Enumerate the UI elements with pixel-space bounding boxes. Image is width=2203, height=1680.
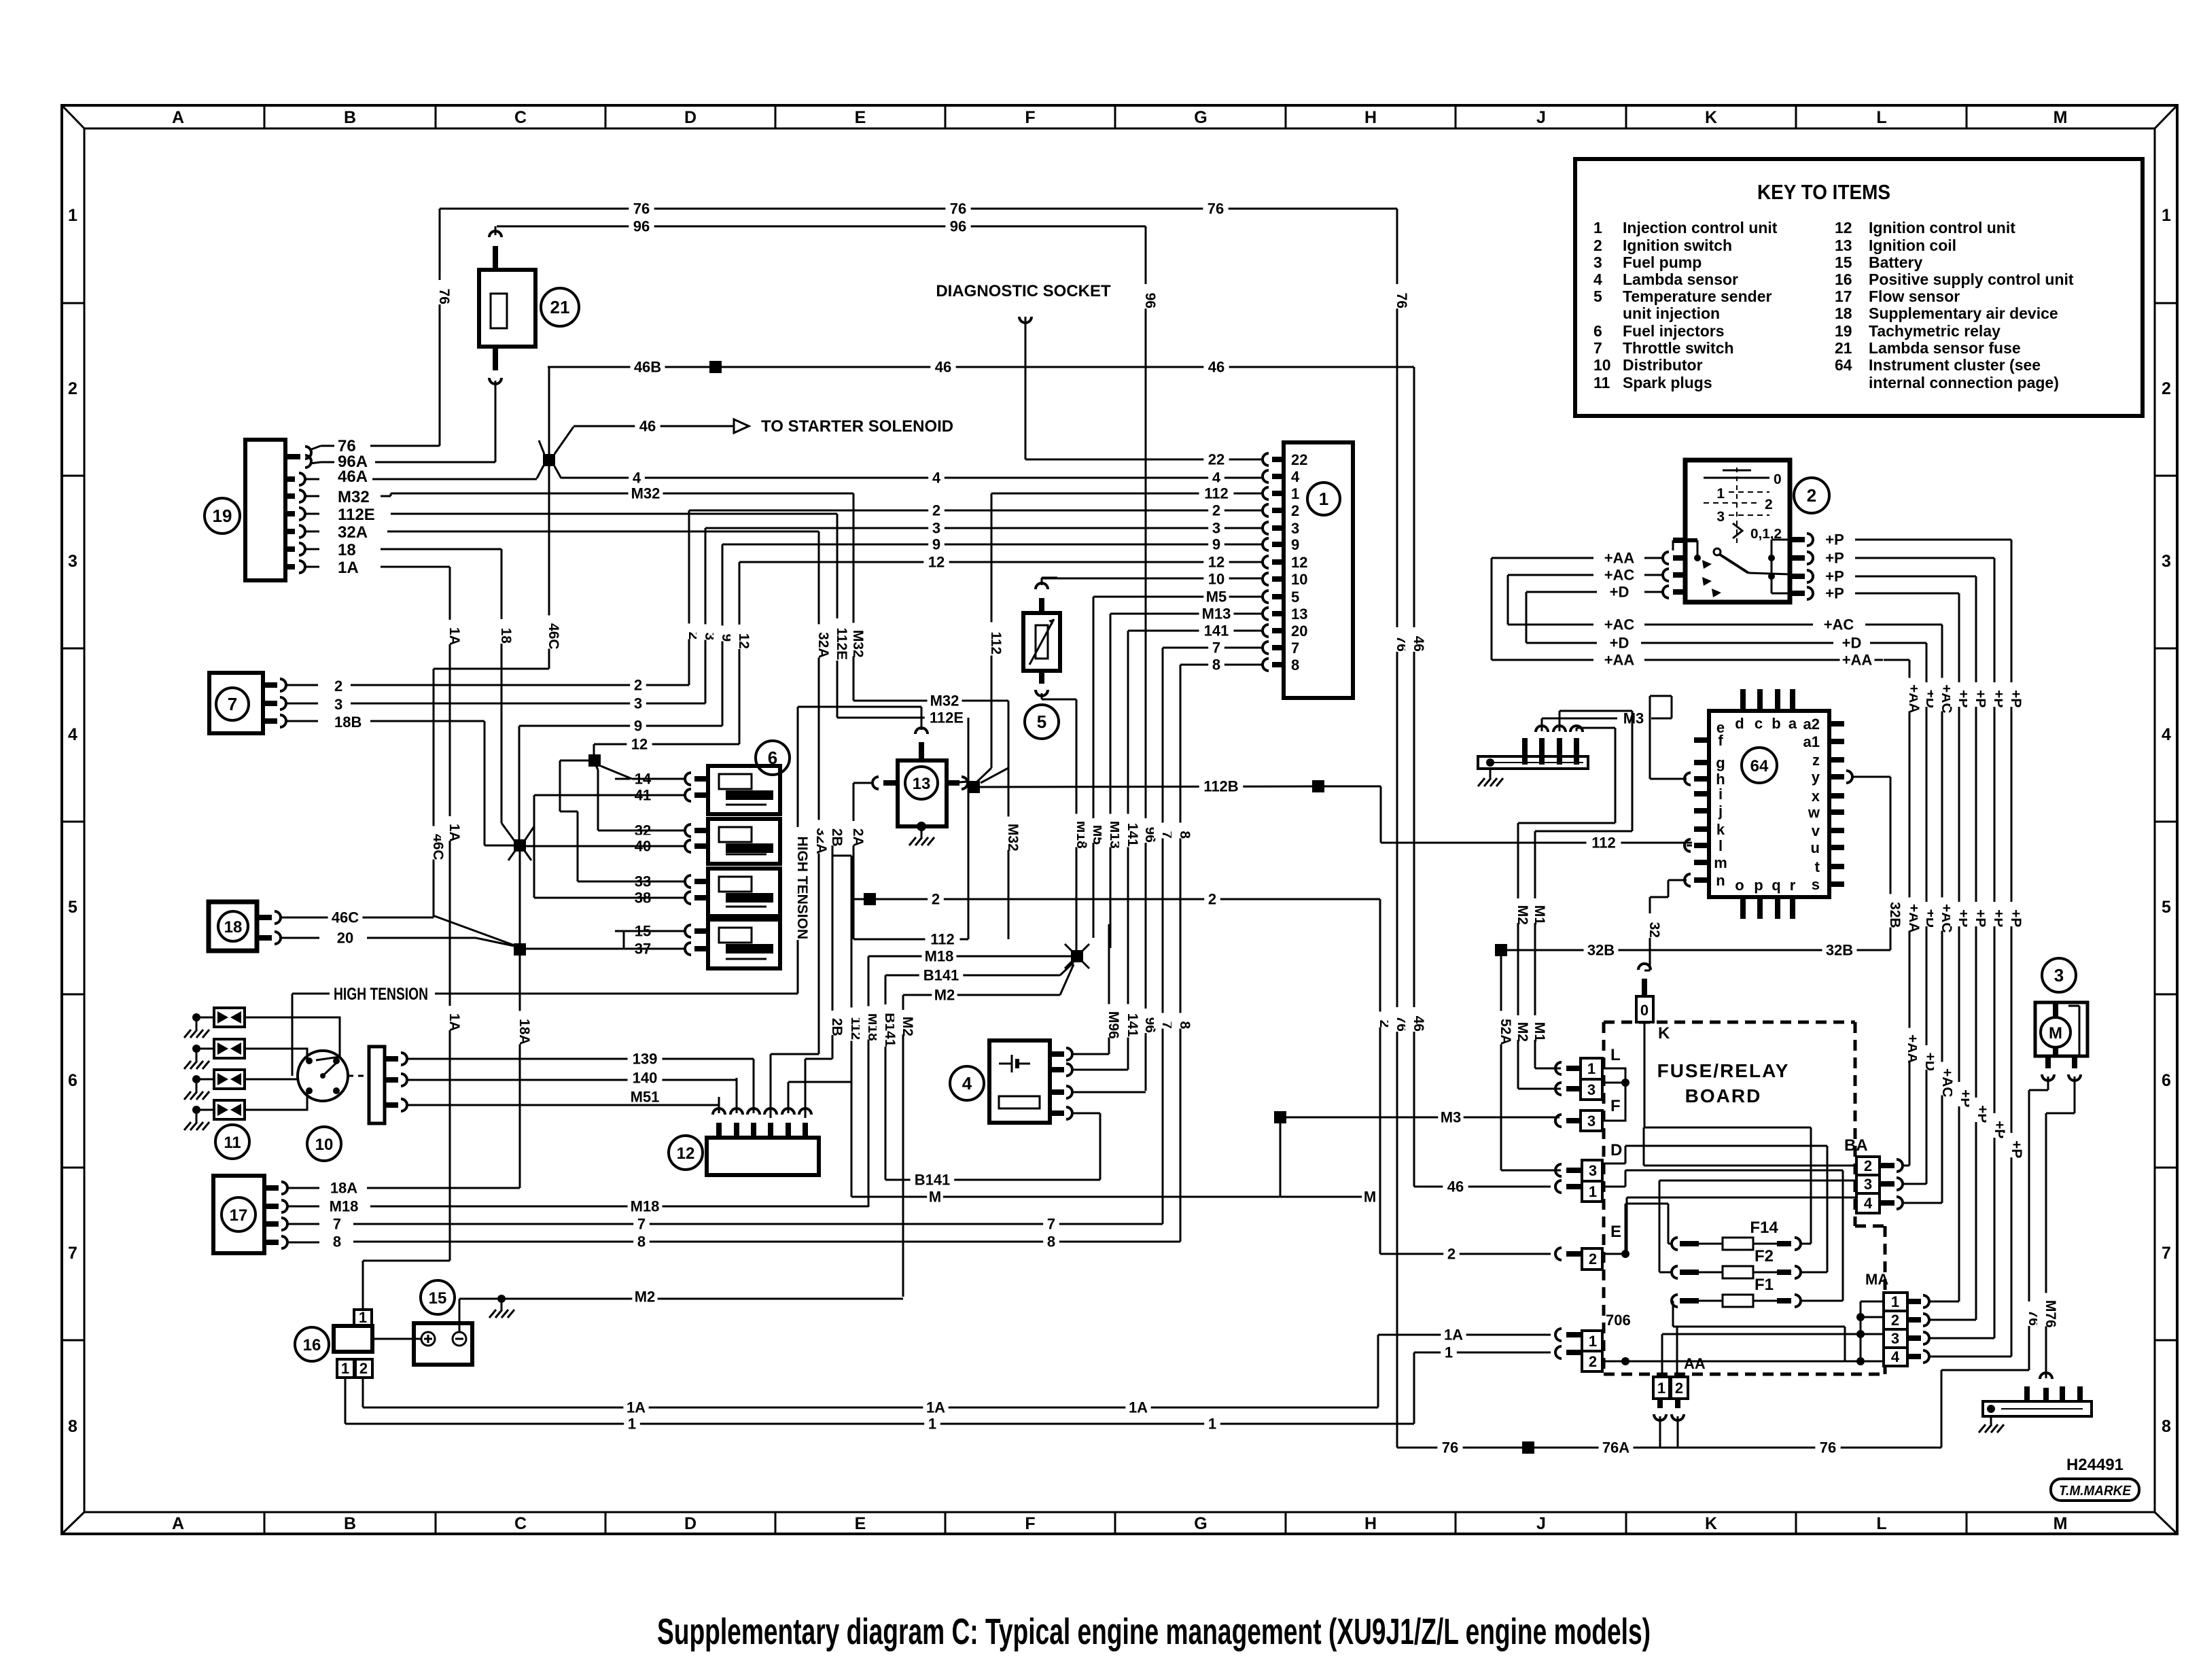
svg-text:B141: B141	[923, 966, 959, 983]
wire BA2 to +AA	[1903, 660, 1909, 1166]
svg-text:BOARD: BOARD	[1685, 1085, 1762, 1106]
wire 96A from fuse	[375, 461, 495, 463]
wire fuse21 top	[495, 226, 497, 235]
wire 1 bottom	[345, 1413, 1414, 1433]
svg-text:112: 112	[988, 631, 1004, 654]
coil left pin	[853, 777, 898, 789]
svg-text:Supplementary diagram C: Typi: Supplementary diagram C: Typical engine …	[657, 1611, 1651, 1652]
wire BA3 to +D	[1903, 643, 1926, 1184]
svg-text:9: 9	[1212, 536, 1220, 553]
high tension wire left	[292, 994, 330, 1076]
svg-text:DIAGNOSTIC SOCKET: DIAGNOSTIC SOCKET	[936, 282, 1111, 300]
svg-text:2: 2	[1589, 1250, 1597, 1267]
svg-text:J: J	[1536, 1514, 1546, 1533]
board 706 dot	[1602, 1357, 1629, 1365]
svg-text:u: u	[1811, 839, 1820, 856]
svg-text:M32: M32	[631, 485, 660, 502]
wire +D right segment	[1839, 632, 1926, 652]
svg-text:2: 2	[1208, 890, 1216, 907]
fuel injector 6.2	[685, 819, 780, 864]
wire M2 mid	[903, 964, 1074, 1003]
svg-text:20: 20	[337, 929, 353, 946]
wire 32B label segment	[1890, 949, 1892, 951]
wire M51	[428, 1086, 719, 1106]
svg-text:M96: M96	[1106, 1011, 1121, 1039]
svg-text:15: 15	[429, 1289, 447, 1308]
svg-text:11: 11	[224, 1134, 241, 1152]
svg-text:46: 46	[639, 417, 656, 434]
circle 4	[950, 1066, 984, 1100]
svg-text:2: 2	[1864, 1157, 1872, 1174]
distributor rotor	[306, 1057, 340, 1094]
switch 2 right pins	[1768, 533, 1813, 599]
circle 21	[541, 288, 579, 326]
wire 141 ecu	[1128, 630, 1264, 632]
wire 12 lower	[594, 733, 739, 755]
bus M96 vertical	[1100, 924, 1121, 1054]
coil ground	[909, 822, 934, 845]
injector 6.1 wire labels	[615, 768, 685, 804]
board K wire	[1644, 1022, 1646, 1127]
svg-text:Lambda sensor: Lambda sensor	[1623, 270, 1738, 288]
svg-text:T.M.MARKE: T.M.MARKE	[2059, 1484, 2132, 1499]
svg-text:76: 76	[950, 200, 966, 217]
svg-text:7: 7	[2162, 1244, 2171, 1263]
svg-text:a2: a2	[1803, 716, 1820, 733]
wire 1 riser	[1414, 1342, 1551, 1424]
svg-text:D: D	[684, 1514, 697, 1533]
svg-text:4: 4	[1291, 468, 1300, 485]
svg-text:4: 4	[2162, 725, 2171, 744]
svg-text:w: w	[1808, 804, 1820, 821]
svg-text:+D: +D	[1610, 583, 1629, 600]
fuse F2	[1672, 1247, 1801, 1278]
wire M3 link	[1274, 1106, 1559, 1197]
wire 112B to cluster	[1324, 786, 1692, 851]
svg-text:7: 7	[1047, 1215, 1055, 1232]
injector feed wire 41-38	[534, 795, 685, 898]
svg-text:96: 96	[1142, 293, 1158, 309]
svg-text:4: 4	[932, 469, 941, 486]
svg-text:L: L	[1876, 108, 1886, 127]
bus 32B vertical	[1882, 777, 1903, 950]
svg-text:13: 13	[1835, 237, 1852, 254]
svg-text:4: 4	[633, 469, 641, 486]
svg-text:8: 8	[637, 1233, 646, 1250]
svg-text:a: a	[1788, 715, 1797, 732]
svg-text:22: 22	[1291, 451, 1307, 468]
svg-text:K: K	[1658, 1024, 1670, 1043]
svg-text:2: 2	[1807, 485, 1816, 506]
svg-text:140: 140	[633, 1069, 658, 1086]
tachymetric relay 19 box	[245, 440, 285, 580]
battery 15 box	[414, 1323, 472, 1365]
board wire D to F1	[1602, 1170, 1843, 1301]
bus M5 vertical	[1085, 597, 1106, 938]
wire cluster l pin	[1687, 845, 1692, 847]
svg-text:+AC: +AC	[1604, 616, 1635, 633]
svg-text:8: 8	[68, 1417, 77, 1436]
svg-text:F: F	[1025, 1514, 1035, 1533]
bus +AA labels	[1899, 678, 1922, 1063]
svg-text:7: 7	[1593, 339, 1602, 357]
svg-text:3: 3	[1291, 520, 1299, 537]
svg-text:3: 3	[1891, 1330, 1899, 1347]
svg-text:m: m	[1714, 854, 1727, 871]
svg-text:4: 4	[962, 1073, 972, 1093]
svg-text:1A: 1A	[1444, 1326, 1463, 1343]
svg-text:76: 76	[1820, 1439, 1836, 1456]
svg-text:46C: 46C	[546, 623, 561, 650]
spark plug wires to distributor	[245, 1017, 340, 1110]
spark plug 11.2	[184, 1039, 245, 1069]
svg-text:2: 2	[2162, 379, 2171, 398]
svg-text:f: f	[1718, 732, 1723, 749]
svg-text:K: K	[1705, 108, 1717, 127]
bus +P labels 2	[1967, 682, 1990, 1123]
node 46 junction	[537, 367, 574, 669]
board AA risers	[1662, 1326, 1861, 1377]
wire 46 to board D	[1414, 1176, 1551, 1195]
board wire F1 lower	[1672, 1301, 1845, 1362]
svg-text:20: 20	[1291, 623, 1307, 640]
wire 112 short	[853, 928, 968, 948]
svg-text:t: t	[1815, 858, 1820, 875]
svg-text:5: 5	[1037, 712, 1046, 732]
ECU 1 pin connectors	[1263, 453, 1284, 671]
board wire 706 to MA	[1625, 1361, 1861, 1363]
temperature sender 5 box	[1023, 613, 1060, 671]
bus 3 vertical	[697, 528, 718, 703]
svg-text:+AA: +AA	[1842, 651, 1873, 668]
svg-text:M3: M3	[1623, 710, 1644, 727]
svg-text:J: J	[1536, 108, 1546, 127]
relay 19 pins	[285, 446, 334, 573]
svg-text:1: 1	[1716, 486, 1725, 502]
wire 1A riser	[1378, 1324, 1551, 1408]
board L loop	[1602, 1068, 1629, 1121]
circle 11	[215, 1125, 249, 1159]
svg-text:32A: 32A	[815, 632, 831, 659]
flow sensor 17 pins	[264, 1182, 319, 1248]
svg-text:112E: 112E	[930, 709, 964, 726]
wire +AA left	[1492, 547, 1663, 567]
fuse F14	[1672, 1219, 1801, 1250]
M3 bus bar	[1478, 726, 1588, 769]
board wire K to F14	[1644, 1127, 1811, 1244]
svg-text:M1: M1	[1532, 1022, 1547, 1042]
svg-text:r: r	[1790, 877, 1796, 894]
svg-text:F: F	[1610, 1097, 1621, 1115]
svg-text:2: 2	[359, 1360, 368, 1377]
distributor cap pins	[385, 1053, 428, 1111]
board connector F	[1555, 1097, 1621, 1131]
svg-text:1: 1	[1291, 485, 1299, 502]
wire 22	[1025, 459, 1264, 461]
lambda sensor 4 box	[989, 1040, 1050, 1123]
svg-text:10: 10	[1208, 570, 1224, 587]
svg-text:2A: 2A	[850, 828, 866, 847]
distributor cap bar	[369, 1047, 385, 1123]
wire 3 ecu	[705, 517, 1264, 537]
svg-text:2: 2	[1291, 502, 1299, 519]
lambda sensor 4 pins	[1050, 1048, 1072, 1119]
svg-text:9: 9	[634, 717, 642, 734]
svg-text:Supplementary air device: Supplementary air device	[1869, 304, 2058, 322]
ground near battery	[489, 1300, 514, 1318]
svg-text:x: x	[1812, 788, 1820, 805]
wire 16 to battery	[372, 1338, 421, 1340]
junction X 18A	[501, 823, 534, 943]
svg-text:a1: a1	[1803, 733, 1820, 750]
wire 2 to board E	[1380, 1243, 1551, 1263]
svg-text:46B: 46B	[634, 358, 661, 375]
svg-text:j: j	[1718, 803, 1723, 820]
caption	[657, 1611, 1651, 1652]
wire +P 1	[1813, 529, 2011, 548]
grid row dividers	[62, 303, 2177, 1340]
svg-text:l: l	[1719, 837, 1723, 854]
svg-text:3: 3	[634, 695, 642, 712]
circle 18	[218, 911, 248, 941]
spark plug 11.4	[184, 1100, 245, 1130]
wire 18 top	[381, 548, 501, 550]
svg-text:4: 4	[68, 725, 77, 744]
injector feed junction A	[560, 754, 685, 881]
wire 1A top	[381, 566, 450, 568]
svg-text:q: q	[1772, 877, 1780, 894]
ECU 1 wire labels	[1199, 449, 1234, 673]
svg-text:1: 1	[2162, 206, 2171, 225]
wire B141 loop from lambda	[885, 1113, 1100, 1188]
svg-text:10: 10	[1593, 356, 1611, 374]
svg-text:2: 2	[1447, 1245, 1456, 1262]
svg-text:1A: 1A	[446, 627, 462, 646]
svg-text:s: s	[1812, 876, 1820, 893]
bus M18 upper vertical	[1068, 699, 1089, 950]
svg-text:7: 7	[228, 694, 237, 714]
spark plug 11.3	[184, 1070, 245, 1100]
svg-text:HIGH TENSION: HIGH TENSION	[794, 836, 810, 939]
bus +P labels 1	[1950, 682, 1973, 1107]
bus B141 vertical	[877, 975, 898, 1180]
unit 12 pin wires	[719, 1054, 851, 1113]
svg-text:H: H	[1364, 1514, 1377, 1533]
wire M96 from lambda	[1074, 1053, 1109, 1055]
svg-text:7: 7	[333, 1215, 341, 1232]
positive supply unit 16	[334, 1309, 372, 1378]
svg-text:M76: M76	[2043, 1300, 2058, 1328]
svg-text:L: L	[1876, 1514, 1886, 1533]
key box	[1575, 159, 2143, 416]
wire MA2 to +P	[1930, 576, 1976, 1320]
svg-text:p: p	[1754, 877, 1763, 894]
wire 1A from 16	[362, 1378, 364, 1407]
circle 64	[1742, 748, 1777, 783]
svg-text:7: 7	[637, 1215, 646, 1232]
svg-text:Distributor: Distributor	[1623, 356, 1703, 374]
svg-text:H: H	[1364, 108, 1377, 127]
svg-text:TO STARTER SOLENOID: TO STARTER SOLENOID	[761, 417, 953, 436]
svg-text:3: 3	[1587, 1081, 1596, 1098]
svg-text:17: 17	[230, 1206, 248, 1225]
svg-text:1: 1	[1445, 1344, 1453, 1361]
svg-text:76: 76	[1394, 293, 1409, 309]
svg-text:M: M	[2054, 1514, 2068, 1533]
svg-text:+P: +P	[2008, 690, 2024, 707]
relay 19 pin labels	[338, 437, 375, 577]
svg-text:52A: 52A	[1498, 1019, 1513, 1045]
svg-text:1: 1	[928, 1415, 936, 1432]
bus 2A vertical	[845, 783, 866, 939]
svg-text:G: G	[1194, 1514, 1207, 1533]
wire 8 ecu	[1180, 664, 1264, 666]
wire M32 mid	[853, 690, 1008, 710]
svg-text:M2: M2	[1515, 905, 1530, 925]
svg-text:y: y	[1812, 769, 1820, 786]
svg-text:76: 76	[1208, 200, 1224, 217]
svg-text:o: o	[1735, 877, 1744, 894]
svg-text:g: g	[1716, 754, 1725, 771]
svg-text:64: 64	[1750, 757, 1769, 775]
svg-text:2: 2	[68, 379, 77, 398]
wire B141 mid	[885, 962, 1074, 983]
fuel injector 6.1	[685, 766, 780, 814]
M76 bar ground symbol	[1979, 1415, 2004, 1433]
svg-text:Battery: Battery	[1869, 253, 1922, 271]
svg-text:2B: 2B	[829, 828, 845, 847]
ignition control unit 12 box	[707, 1138, 819, 1175]
svg-text:1A: 1A	[446, 824, 462, 842]
svg-text:M51: M51	[631, 1088, 660, 1105]
svg-text:Instrument cluster (see: Instrument cluster (see	[1869, 356, 2041, 374]
grid column dividers	[264, 105, 1967, 1534]
svg-text:8: 8	[1177, 830, 1193, 839]
svg-text:Ignition switch: Ignition switch	[1623, 237, 1732, 254]
wire 139	[428, 1048, 754, 1068]
svg-text:BA: BA	[1844, 1136, 1868, 1155]
svg-text:+AA: +AA	[1604, 651, 1635, 668]
sender 5 top pin	[1036, 578, 1057, 613]
circle 1	[1307, 483, 1340, 515]
ignition coil 13 box	[898, 760, 947, 826]
wire M13 ecu	[1110, 613, 1264, 615]
wire +P 2	[1813, 547, 1994, 567]
bus +P labels 4	[2003, 682, 2024, 1158]
diagnostic socket label	[936, 282, 1111, 300]
svg-text:12: 12	[928, 553, 945, 570]
svg-text:18A: 18A	[330, 1179, 357, 1196]
svg-text:M2: M2	[635, 1288, 656, 1305]
svg-text:+AC: +AC	[1824, 616, 1854, 633]
cluster 64 pin letters	[1714, 715, 1820, 894]
svg-text:3: 3	[2162, 552, 2171, 571]
bus 8 vertical	[1171, 665, 1193, 1242]
svg-text:H24491: H24491	[2066, 1456, 2123, 1474]
loop +AC	[1508, 575, 1813, 633]
svg-text:76: 76	[436, 289, 452, 304]
svg-text:1: 1	[628, 1415, 636, 1432]
svg-text:141: 141	[1125, 1013, 1140, 1037]
svg-text:Throttle switch: Throttle switch	[1623, 339, 1734, 357]
wire +P 4	[1813, 582, 1959, 602]
grid letters A-M	[172, 108, 2067, 1533]
svg-text:76A: 76A	[1602, 1439, 1629, 1456]
bus M2b vertical	[1509, 823, 1561, 1089]
circle 7	[216, 688, 249, 720]
svg-text:2: 2	[634, 676, 642, 693]
bus 52A vertical	[1492, 944, 1561, 1170]
high tension label	[329, 981, 433, 1005]
wire 2 ecu	[689, 500, 1264, 519]
svg-text:D: D	[1610, 1141, 1622, 1159]
circle 17	[222, 1197, 255, 1231]
fuel pump pins	[2042, 1006, 2081, 1081]
wire 1A to unit 16	[363, 1261, 450, 1310]
svg-text:1A: 1A	[338, 559, 359, 577]
bus 9 vertical	[713, 544, 735, 726]
wire 7 ecu	[1163, 647, 1264, 649]
svg-text:4: 4	[1891, 1348, 1900, 1365]
svg-text:n: n	[1716, 872, 1725, 889]
board connector MA	[1865, 1271, 1929, 1366]
wire 9 lower	[519, 715, 722, 841]
svg-text:G: G	[1194, 108, 1207, 127]
svg-text:2: 2	[932, 890, 940, 907]
svg-text:3: 3	[1587, 1113, 1596, 1130]
svg-text:F: F	[1025, 108, 1035, 127]
svg-text:46: 46	[1411, 1016, 1426, 1032]
board E dot	[1602, 1250, 1629, 1258]
board connector 706	[1555, 1312, 1631, 1371]
board wire BA3 feed	[1659, 1180, 1856, 1272]
svg-text:E: E	[855, 1514, 866, 1533]
circle 3	[2042, 958, 2076, 992]
wire MA4 to +P	[1930, 540, 2011, 1357]
key list right column	[1835, 219, 2074, 391]
bus M1 vertical	[1526, 831, 1561, 1068]
board MA dots	[1856, 1301, 1884, 1365]
svg-text:F1: F1	[1755, 1276, 1774, 1294]
svg-text:46A: 46A	[338, 468, 368, 486]
bus M13 vertical	[1101, 614, 1123, 948]
wire M2b from bar	[1518, 728, 1615, 823]
svg-text:32B: 32B	[1826, 941, 1853, 958]
svg-text:+P: +P	[1825, 584, 1844, 601]
bus M18 lower vertical	[860, 956, 881, 1207]
svg-text:13: 13	[1291, 606, 1307, 623]
spark plug 11.1	[184, 1008, 245, 1038]
M3 bar ground	[1478, 769, 1503, 786]
svg-text:i: i	[1719, 786, 1723, 803]
injector 6.3 wire labels	[615, 871, 685, 907]
svg-text:1: 1	[1589, 1333, 1597, 1350]
ECU 1 pin numbers	[1291, 451, 1307, 673]
svg-text:C: C	[514, 108, 527, 127]
wire +AC left	[1508, 564, 1663, 584]
svg-text:z: z	[1812, 752, 1820, 769]
svg-text:M: M	[2049, 1024, 2062, 1043]
throttle switch 7 pin labels	[334, 678, 362, 731]
svg-text:1A: 1A	[1129, 1399, 1148, 1416]
wire BA4 to +AC	[1903, 625, 1942, 1203]
instrument cluster 64 box	[1709, 711, 1829, 897]
bus 112 lower vertical	[832, 856, 864, 1197]
injector feed wire 15-37	[526, 931, 685, 949]
svg-text:+P: +P	[2009, 1140, 2024, 1158]
svg-text:M: M	[929, 1188, 941, 1205]
wire 7 long	[329, 1213, 1163, 1233]
